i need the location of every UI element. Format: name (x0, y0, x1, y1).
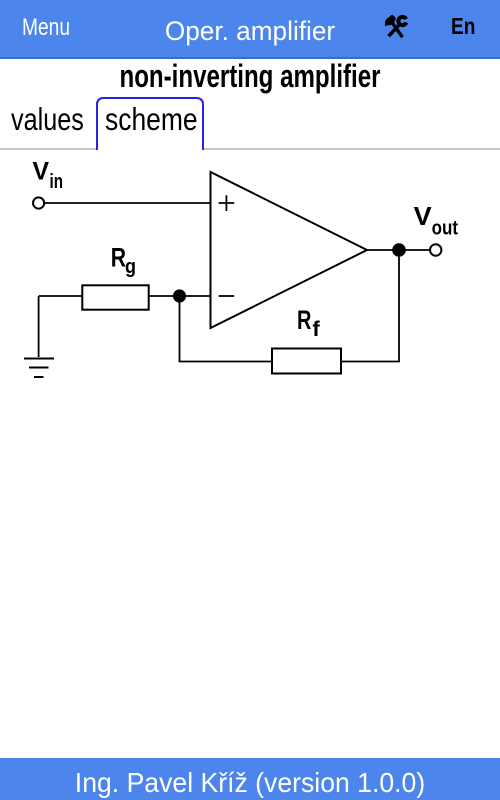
svg-text:R: R (111, 243, 126, 273)
header bar (0, 0, 500, 59)
ground (24, 359, 54, 378)
wire Vin to op-amp + input (44, 202, 211, 204)
En language button (451, 15, 475, 38)
footer bar (0, 758, 500, 800)
wire Rg to inverting input (149, 295, 211, 297)
resistor Rg (82, 285, 148, 309)
footer text (75, 769, 425, 797)
circuit schematic (0, 150, 500, 410)
Menu button text (22, 16, 70, 40)
output terminal Vout (430, 244, 441, 255)
wrench handle (388, 23, 400, 36)
tools icon (hammer and wrench) (384, 14, 410, 40)
svg-text:in: in (50, 171, 64, 193)
wire ground to Rg (39, 296, 83, 357)
input terminal Vin (33, 197, 44, 208)
wire op-amp output to Vout (367, 249, 430, 251)
svg-text:f: f (312, 318, 320, 341)
svg-text:out: out (432, 217, 459, 239)
op-amp U1 triangle (211, 172, 368, 328)
wire Rf to output node (341, 250, 399, 362)
svg-text:g: g (125, 256, 136, 278)
tab bar separator line (0, 148, 500, 150)
title Oper. amplifier (165, 18, 335, 45)
resistor Rf (272, 349, 341, 374)
svg-text:V: V (414, 201, 432, 231)
wrench head (396, 14, 408, 26)
wire feedback down and to Rf (180, 296, 273, 362)
hammer handle (391, 21, 402, 36)
tab values (unselected) (11, 104, 84, 136)
plus symbol (219, 195, 235, 211)
hammer head (383, 14, 397, 27)
svg-text:V: V (33, 158, 50, 186)
svg-text:R: R (297, 305, 311, 335)
subtitle non-inverting amplifier (119, 60, 380, 92)
node junction at inverting input (173, 289, 186, 302)
minus symbol (219, 295, 235, 297)
tab scheme (selected, blue outline) (96, 97, 204, 150)
node output junction (392, 243, 406, 257)
